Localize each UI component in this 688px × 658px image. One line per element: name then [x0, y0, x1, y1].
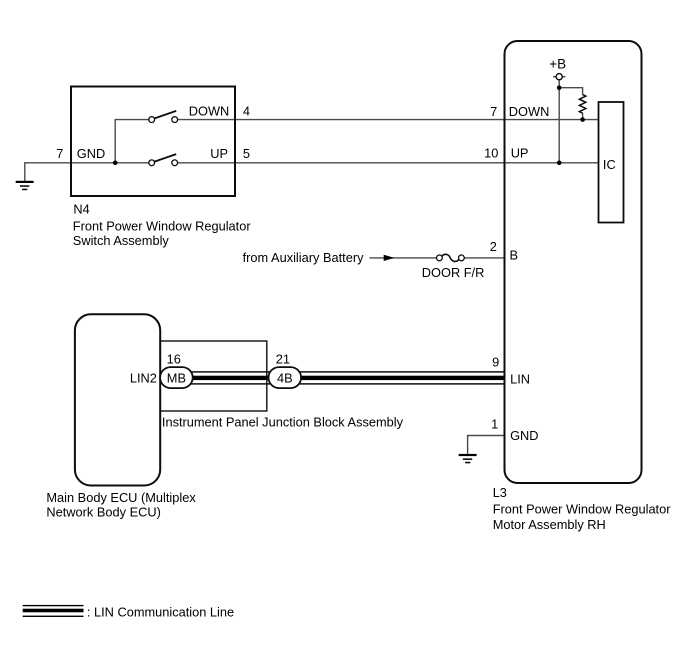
wire: DOWN line from switch pin 4 to motor IC — [178, 119, 599, 121]
resistor R1 — [579, 95, 585, 114]
svg-text:5: 5 — [243, 146, 250, 161]
junction dot: resistor to DOWN line — [580, 117, 585, 122]
svg-text:Instrument Panel Junction Bloc: Instrument Panel Junction Block Assembly — [162, 415, 404, 430]
switch box N4 — [71, 87, 235, 197]
ground symbol left — [16, 181, 34, 190]
circuit breaker DOOR F/R — [437, 254, 465, 261]
+B terminal circle — [556, 74, 562, 80]
ground symbol right (motor GND) — [459, 454, 477, 463]
svg-text:UP: UP — [511, 146, 529, 161]
svg-text:IC: IC — [603, 157, 616, 172]
wire: ground lead to switch pin 7 GND and UP contact — [25, 163, 149, 182]
svg-text:MB: MB — [167, 370, 186, 385]
wire: circuit breaker to motor pin 2 B — [464, 257, 505, 259]
wire: motor pin 1 GND lead — [468, 436, 505, 455]
svg-text:LIN2: LIN2 — [130, 370, 157, 385]
svg-text:DOWN: DOWN — [189, 104, 230, 119]
wire: UP line from switch pin 5 to motor IC — [178, 162, 599, 164]
svg-text:N4: N4 — [73, 202, 89, 217]
wire: +B vertical drop to UP line — [558, 80, 560, 163]
svg-text:GND: GND — [510, 428, 538, 443]
svg-text:10: 10 — [484, 146, 498, 161]
svg-text:UP: UP — [210, 146, 228, 161]
svg-text:L3: L3 — [493, 485, 507, 500]
switch S1 DOWN contacts — [149, 111, 178, 123]
svg-text:Main Body ECU (Multiplex: Main Body ECU (Multiplex — [46, 490, 196, 505]
svg-text:1: 1 — [491, 417, 498, 432]
svg-text:9: 9 — [492, 355, 499, 370]
svg-text:from Auxiliary Battery: from Auxiliary Battery — [243, 250, 364, 265]
svg-text:7: 7 — [56, 146, 63, 161]
svg-text:7: 7 — [490, 104, 497, 119]
connector 4B oval — [269, 367, 302, 388]
wire: +B terminal tick — [553, 76, 565, 78]
junction block box — [160, 341, 267, 411]
svg-text:16: 16 — [167, 352, 181, 367]
arrow: battery feed direction — [384, 255, 395, 261]
svg-text:4: 4 — [243, 104, 250, 119]
junction dot: +B to UP line — [557, 161, 562, 166]
ECU box — [75, 314, 160, 485]
svg-text:21: 21 — [276, 352, 290, 367]
wire: branch to resistor top — [559, 88, 582, 95]
svg-text:2: 2 — [490, 239, 497, 254]
svg-text:Network Body ECU): Network Body ECU) — [46, 505, 160, 520]
svg-text:LIN: LIN — [510, 372, 530, 387]
svg-text:: LIN Communication Line: : LIN Communication Line — [87, 605, 234, 620]
switch S2 UP contacts — [149, 154, 178, 166]
svg-text:GND: GND — [77, 146, 105, 161]
svg-text:B: B — [510, 248, 519, 263]
junction dot: +B branch — [557, 85, 562, 90]
wire: from Auxiliary Battery to circuit breaker — [369, 257, 437, 259]
svg-text:DOWN: DOWN — [509, 104, 550, 119]
svg-text:Motor Assembly RH: Motor Assembly RH — [493, 517, 606, 532]
svg-text:Switch Assembly: Switch Assembly — [73, 233, 170, 248]
motor box L3 — [505, 41, 642, 483]
IC block U1 — [599, 102, 624, 223]
legend: LIN communication line swatch — [23, 605, 84, 617]
wire: switch internal branch from DOWN contact to GND junction — [115, 120, 149, 163]
svg-text:Front Power Window Regulator: Front Power Window Regulator — [493, 502, 672, 517]
svg-text:Front Power Window Regulator: Front Power Window Regulator — [73, 218, 252, 233]
junction dot: switch GND branch — [113, 161, 118, 166]
wire: resistor bottom to DOWN line — [582, 113, 584, 119]
connector MB oval — [160, 367, 193, 388]
svg-text:+B: +B — [549, 56, 566, 71]
wire: LIN communication line (triple) from MB to motor pin 9 — [176, 371, 505, 384]
svg-text:4B: 4B — [277, 370, 293, 385]
svg-text:DOOR F/R: DOOR F/R — [422, 265, 485, 280]
